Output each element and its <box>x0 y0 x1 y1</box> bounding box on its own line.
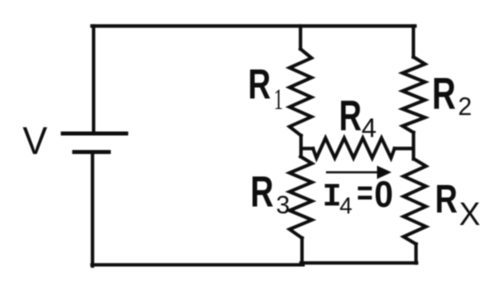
svg-text:=: = <box>357 174 373 212</box>
label R2 <box>432 70 472 121</box>
svg-text:3: 3 <box>276 192 290 220</box>
svg-text:R: R <box>435 177 458 222</box>
wire: node B (R1-R3-R4 junction) <box>299 136 302 157</box>
resistor RX <box>404 159 427 244</box>
svg-text:R: R <box>250 168 273 217</box>
svg-text:0: 0 <box>374 174 393 216</box>
wire: node C (R2-RX-R4 junction) <box>412 133 415 160</box>
svg-text:V: V <box>23 120 48 163</box>
wire: left branch lower (battery - to bottom rail) <box>91 153 94 266</box>
wire: R2 top lead <box>412 26 415 57</box>
battery V (plates) <box>63 134 126 153</box>
label I4=0 <box>322 174 393 219</box>
svg-text:4: 4 <box>340 193 353 219</box>
wire: bottom rail right segment <box>301 261 417 264</box>
label R1 <box>248 60 283 116</box>
svg-text:1: 1 <box>274 84 283 116</box>
wire: R1 top lead <box>299 26 302 49</box>
resistor R3 <box>290 157 313 239</box>
wire: RX bottom lead <box>414 244 417 263</box>
wire: R4 right lead <box>395 147 414 150</box>
label RX <box>435 177 480 232</box>
svg-text:R: R <box>248 60 271 108</box>
resistor R4 <box>313 138 395 158</box>
resistor R1 <box>290 49 312 136</box>
arrow: current I4 direction <box>326 166 392 179</box>
wire: left branch upper (top rail to battery +) <box>92 26 95 132</box>
wire: top rail <box>92 24 415 27</box>
wire: bottom rail left segment <box>92 263 303 266</box>
svg-text:X: X <box>459 196 480 232</box>
svg-text:R: R <box>432 70 456 119</box>
svg-text:R: R <box>339 91 362 139</box>
svg-text:2: 2 <box>458 93 472 121</box>
wire: R4 left lead <box>302 147 313 150</box>
wire: R3 bottom lead <box>300 238 303 264</box>
label R4 <box>339 91 377 143</box>
label R3 <box>250 168 290 220</box>
svg-text:4: 4 <box>362 113 377 143</box>
resistor R2 <box>403 57 426 133</box>
